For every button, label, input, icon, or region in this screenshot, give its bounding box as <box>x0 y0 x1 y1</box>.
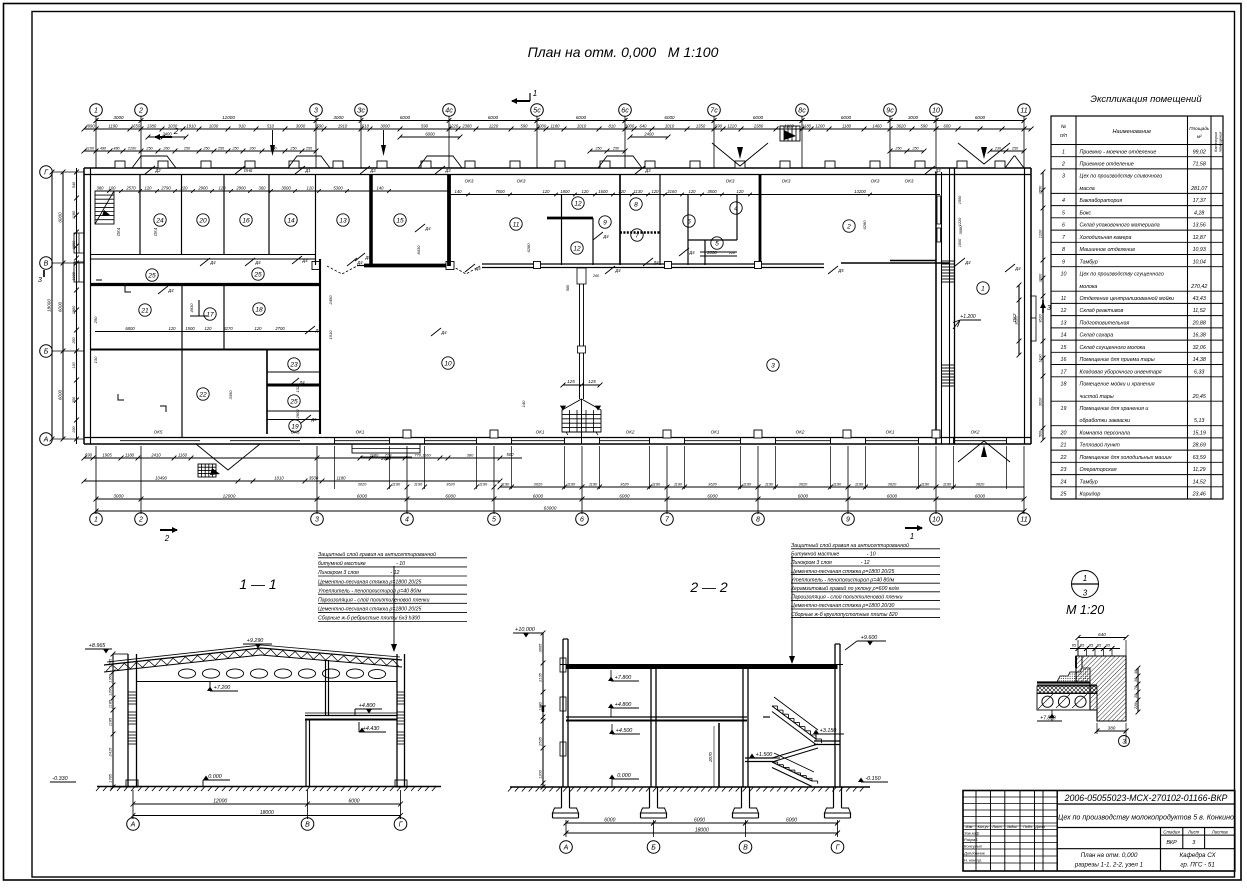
svg-text:2380: 2380 <box>753 123 764 128</box>
svg-text:3000: 3000 <box>537 123 547 128</box>
roof note leader 2-2 <box>791 556 793 663</box>
partition x=593 <box>592 218 594 265</box>
svg-text:+4.800: +4.800 <box>359 703 376 709</box>
svg-text:4: 4 <box>405 517 409 524</box>
svg-text:3000: 3000 <box>625 123 635 128</box>
svg-text:260: 260 <box>162 146 170 150</box>
svg-text:6000: 6000 <box>533 493 544 498</box>
svg-text:2: 2 <box>138 517 143 524</box>
svg-text:Д3: Д3 <box>369 168 376 173</box>
svg-text:3000: 3000 <box>296 123 306 128</box>
svg-text:1380: 1380 <box>147 123 157 128</box>
svg-text:590: 590 <box>715 123 723 128</box>
svg-text:10,93: 10,93 <box>1193 247 1206 253</box>
svg-text:А: А <box>130 822 136 829</box>
room 23 label <box>288 358 300 370</box>
right wall window <box>1031 296 1036 341</box>
svg-text:1190: 1190 <box>479 481 488 486</box>
svg-text:Помещение мойки и хранения: Помещение мойки и хранения <box>1080 381 1155 388</box>
svg-text:6000: 6000 <box>975 115 986 120</box>
svg-text:№: № <box>1061 124 1067 130</box>
interior dim row mid <box>449 194 940 196</box>
svg-text:1190: 1190 <box>921 481 930 486</box>
room2 wall right segment <box>890 260 936 262</box>
roof note leader 1-1 <box>393 566 395 651</box>
svg-text:12000: 12000 <box>213 798 227 804</box>
detail insulation band <box>1037 686 1097 693</box>
svg-text:17,37: 17,37 <box>1193 198 1207 204</box>
titleblock name row <box>1057 827 1235 829</box>
svg-text:1200: 1200 <box>815 123 825 128</box>
svg-text:Д1: Д1 <box>304 168 310 173</box>
svg-text:Цементно-песчаная стяжка ρ=180: Цементно-песчаная стяжка ρ=1800 20/30 <box>791 603 894 609</box>
section2 axis circle Г <box>831 841 844 854</box>
svg-text:281,07: 281,07 <box>1190 186 1208 192</box>
svg-text:1: 1 <box>910 532 914 541</box>
svg-text:Д5: Д5 <box>474 266 481 271</box>
svg-text:2135: 2135 <box>537 672 542 682</box>
svg-text:250: 250 <box>72 336 76 344</box>
svg-text:270,42: 270,42 <box>1190 284 1207 290</box>
dimension mid pair b <box>890 150 924 152</box>
conveyor structure hall <box>562 399 601 432</box>
section1 roof truss <box>104 648 402 665</box>
room 7 label <box>631 229 643 241</box>
axis circle 7 bottom <box>661 513 674 526</box>
svg-text:В: В <box>44 261 49 268</box>
svg-text:Н. контр.: Н. контр. <box>964 857 982 862</box>
svg-text:14,38: 14,38 <box>1193 357 1206 363</box>
pilasters on top wall <box>115 161 125 168</box>
section mark 2 bottom <box>160 529 177 531</box>
svg-text:1180: 1180 <box>370 452 379 457</box>
svg-text:+9.600: +9.600 <box>861 635 878 641</box>
room 15 label <box>394 214 406 226</box>
svg-text:3000: 3000 <box>113 115 124 120</box>
section1 mezzanine wall <box>305 720 307 787</box>
svg-text:3500: 3500 <box>309 475 319 480</box>
axis circle 6с top <box>619 104 632 117</box>
svg-text:2160: 2160 <box>127 146 137 150</box>
svg-text:Кладовая уборочного инвентаря: Кладовая уборочного инвентаря <box>1080 369 1162 375</box>
svg-text:2535: 2535 <box>537 736 542 746</box>
svg-text:+1.200: +1.200 <box>960 314 976 320</box>
svg-text:2570: 2570 <box>125 185 136 190</box>
section1 witness lines <box>132 790 134 819</box>
svg-text:В: В <box>305 822 310 829</box>
detail parapet line <box>1075 656 1077 668</box>
svg-text:А: А <box>43 437 49 444</box>
section2 axis circle А <box>560 841 573 854</box>
svg-text:м²: м² <box>1197 134 1202 139</box>
svg-text:Тамбур: Тамбур <box>1080 479 1098 485</box>
svg-text:Стадия: Стадия <box>1163 829 1180 834</box>
wall x=320 full <box>319 259 321 434</box>
svg-text:63,59: 63,59 <box>1193 455 1206 461</box>
svg-text:1350: 1350 <box>696 123 706 128</box>
svg-text:9: 9 <box>603 219 607 226</box>
room 13 label <box>337 214 349 226</box>
svg-text:13,56: 13,56 <box>1193 223 1206 229</box>
svg-text:6000: 6000 <box>57 212 62 223</box>
svg-text:250: 250 <box>93 316 98 324</box>
svg-text:250: 250 <box>305 146 313 150</box>
svg-text:250: 250 <box>145 146 153 150</box>
axis tick В left <box>53 262 85 264</box>
svg-text:1180: 1180 <box>842 123 852 128</box>
section1 dim row2 <box>133 815 401 817</box>
svg-text:5300: 5300 <box>333 185 343 190</box>
svg-text:8: 8 <box>1062 247 1065 253</box>
svg-text:Д4: Д4 <box>298 380 305 385</box>
svg-text:510: 510 <box>362 123 370 128</box>
detail floor top line <box>1037 681 1090 683</box>
door marks <box>200 258 210 266</box>
svg-text:6000: 6000 <box>445 493 456 498</box>
svg-text:1000: 1000 <box>958 238 962 247</box>
svg-text:№док: №док <box>1007 825 1017 829</box>
svg-text:1: 1 <box>94 108 98 115</box>
axis line 3 top <box>315 117 317 169</box>
svg-text:3620: 3620 <box>896 123 906 128</box>
dimension line top row3 segment b <box>400 136 460 138</box>
svg-text:25: 25 <box>147 272 156 279</box>
svg-text:2400: 2400 <box>643 131 654 136</box>
svg-text:Комната персонала: Комната персонала <box>1080 431 1131 437</box>
svg-text:Д4: Д4 <box>209 260 216 265</box>
svg-text:+9.290: +9.290 <box>247 638 264 644</box>
svg-text:3620: 3620 <box>358 481 367 486</box>
svg-text:4: 4 <box>1062 198 1065 204</box>
svg-text:230: 230 <box>72 425 76 433</box>
axis circle В left <box>40 257 53 270</box>
svg-text:4с: 4с <box>445 108 453 115</box>
dimension line top row4 <box>84 150 316 152</box>
svg-text:7500: 7500 <box>495 189 505 194</box>
explication table grid <box>1051 116 1223 499</box>
dim 2000 room4 <box>700 255 737 257</box>
corner marks room22b <box>96 280 131 292</box>
section2 dim row1 <box>566 822 838 824</box>
svg-text:770,1160: 770,1160 <box>414 452 431 457</box>
svg-text:1: 1 <box>981 285 985 292</box>
svg-text:23: 23 <box>1060 467 1067 473</box>
svg-text:обработки закваски: обработки закваски <box>1080 418 1131 424</box>
svg-text:28,69: 28,69 <box>1192 443 1206 449</box>
svg-text:17: 17 <box>1061 369 1068 375</box>
section1 axis circle Г <box>394 818 407 831</box>
staircase top left <box>95 191 114 224</box>
section2 axis circle В <box>739 841 752 854</box>
axis circle 11 top <box>1018 104 1031 117</box>
svg-text:2070: 2070 <box>708 752 713 763</box>
axis circle 3 bottom <box>311 513 324 526</box>
svg-text:120: 120 <box>255 326 263 331</box>
svg-text:1220: 1220 <box>958 217 962 226</box>
svg-text:ОК3: ОК3 <box>905 179 914 184</box>
svg-text:6000: 6000 <box>664 115 675 120</box>
svg-text:5: 5 <box>715 240 719 247</box>
svg-text:12: 12 <box>573 245 581 252</box>
svg-text:25: 25 <box>1060 492 1067 498</box>
partition x=267 lower <box>266 350 268 435</box>
svg-text:6с: 6с <box>621 108 629 115</box>
svg-text:1190: 1190 <box>652 481 661 486</box>
section2 ground line <box>510 786 870 788</box>
svg-text:770: 770 <box>385 452 392 457</box>
svg-text:21: 21 <box>1060 443 1067 449</box>
svg-text:Консульт: Консульт <box>964 843 983 848</box>
svg-text:10: 10 <box>932 517 940 524</box>
svg-text:6000: 6000 <box>975 493 986 498</box>
svg-text:380: 380 <box>97 185 105 190</box>
svg-text:Д3: Д3 <box>444 168 451 173</box>
svg-text:2: 2 <box>846 223 851 230</box>
wall under room21 row <box>90 349 320 351</box>
svg-text:Тепловой пункт: Тепловой пункт <box>1080 442 1121 449</box>
room 11 label <box>510 218 522 230</box>
section2 column 2 <box>650 668 652 788</box>
svg-text:Д4: Д4 <box>356 260 363 265</box>
axis line 2 top <box>140 117 142 169</box>
section1 axis circle В <box>301 818 314 831</box>
svg-text:Приемное отделение: Приемное отделение <box>1080 162 1134 168</box>
wall y=240 small rooms <box>688 239 737 241</box>
svg-text:+10.000: +10.000 <box>515 627 535 633</box>
svg-text:Дипломник: Дипломник <box>963 850 986 855</box>
axis line 5с top <box>536 117 538 169</box>
axis circle 2 bottom <box>135 513 148 526</box>
svg-text:Операторская: Операторская <box>1080 467 1117 473</box>
svg-text:23: 23 <box>289 361 298 368</box>
svg-text:3620: 3620 <box>708 481 717 486</box>
svg-text:Кол.уч: Кол.уч <box>978 825 989 829</box>
svg-text:Цех по производству молокопрод: Цех по производству молокопродуктов 5 в.… <box>1058 814 1234 822</box>
svg-text:12: 12 <box>574 200 582 207</box>
svg-text:Приемно - моечное отделение: Приемно - моечное отделение <box>1080 149 1157 155</box>
svg-text:120: 120 <box>169 326 177 331</box>
svg-text:План на отм. 0,000: План на отм. 0,000 <box>1081 852 1138 859</box>
svg-text:3620: 3620 <box>534 481 543 486</box>
section1 column A <box>127 654 129 787</box>
axis circle Г left <box>40 166 53 179</box>
svg-text:Д4: Д4 <box>964 260 971 265</box>
svg-text:10: 10 <box>932 108 940 115</box>
svg-text:18000: 18000 <box>695 827 709 833</box>
svg-text:590: 590 <box>85 452 93 457</box>
dim row 63000 <box>96 510 1024 512</box>
section1 inner column <box>325 660 327 716</box>
axis circle 9с top <box>884 104 897 117</box>
svg-text:120: 120 <box>689 189 697 194</box>
room 25 label <box>288 395 300 407</box>
window left bottom wall <box>120 440 200 442</box>
svg-text:3620: 3620 <box>620 481 629 486</box>
left dim vertical c <box>76 168 78 444</box>
svg-text:Цех по производству сгущенного: Цех по производству сгущенного <box>1080 272 1164 278</box>
detail node circle <box>1072 571 1099 598</box>
svg-text:ОК2: ОК2 <box>971 430 980 435</box>
svg-text:490: 490 <box>100 146 107 150</box>
svg-text:1: 1 <box>94 517 98 524</box>
svg-text:250: 250 <box>183 146 191 150</box>
svg-text:1160: 1160 <box>178 452 188 457</box>
section2 roof slab <box>566 665 838 670</box>
svg-text:2000: 2000 <box>706 250 717 255</box>
arrow marker b <box>381 145 386 156</box>
svg-text:1220: 1220 <box>1038 229 1042 238</box>
titleblock left verticals <box>975 791 977 872</box>
svg-text:3620: 3620 <box>799 481 808 486</box>
detail dim 640 <box>1078 637 1126 639</box>
svg-text:1160: 1160 <box>86 146 95 150</box>
svg-text:18000: 18000 <box>260 810 274 816</box>
svg-text:22: 22 <box>198 391 207 398</box>
svg-text:10: 10 <box>444 360 452 367</box>
svg-text:ОК4: ОК4 <box>153 227 158 236</box>
section mark 1 bottom <box>905 527 922 529</box>
svg-text:ОК1: ОК1 <box>711 430 720 435</box>
svg-text:Сборные ж-б круглопустотные п: Сборные ж-б круглопустотные плиты δ20 <box>791 612 898 618</box>
svg-text:ОК1: ОК1 <box>536 430 545 435</box>
svg-text:6,33: 6,33 <box>1194 369 1204 375</box>
titleblock outer <box>963 791 1235 872</box>
section1 fascia ovals <box>178 669 195 678</box>
svg-text:6280: 6280 <box>526 243 531 253</box>
svg-text:Д4: Д4 <box>301 258 308 263</box>
svg-text:Д6: Д6 <box>310 417 317 422</box>
dim row bottom left a <box>84 457 317 459</box>
svg-text:1350: 1350 <box>107 673 112 682</box>
svg-text:13200: 13200 <box>854 189 866 194</box>
axis line Зс top <box>360 117 362 169</box>
svg-text:2380: 2380 <box>461 123 472 128</box>
section2 partition door <box>718 723 720 787</box>
svg-text:Отделение централизованной мой: Отделение централизованной мойки <box>1080 295 1175 302</box>
pilasters mid wall <box>534 262 541 269</box>
svg-text:65: 65 <box>1072 643 1077 648</box>
svg-text:6000: 6000 <box>619 493 630 498</box>
svg-text:Машинное отделение: Машинное отделение <box>1080 247 1136 253</box>
svg-text:12: 12 <box>1061 308 1067 314</box>
axis circle 8 bottom <box>752 513 765 526</box>
svg-text:7с: 7с <box>710 108 718 115</box>
axis circle 10 bottom <box>930 513 943 526</box>
section1 mezzanine slab <box>305 715 397 717</box>
svg-text:Линокром 3 слоя: Линокром 3 слоя - 12 <box>790 560 870 566</box>
svg-text:Зс: Зс <box>357 108 365 115</box>
svg-text:1190: 1190 <box>108 123 118 128</box>
svg-text:Склад реактивов: Склад реактивов <box>1080 308 1124 314</box>
svg-text:1190: 1190 <box>743 481 752 486</box>
svg-text:Экспликация помещений: Экспликация помещений <box>1090 94 1202 105</box>
svg-text:1190: 1190 <box>414 481 423 486</box>
svg-text:1800: 1800 <box>560 189 570 194</box>
section2 parapet right <box>835 643 840 645</box>
svg-text:1220: 1220 <box>449 123 459 128</box>
svg-text:1550: 1550 <box>1038 185 1042 194</box>
section2 small mark <box>540 705 546 707</box>
svg-text:11: 11 <box>1061 296 1067 302</box>
svg-text:63000: 63000 <box>544 505 557 510</box>
svg-text:6000: 6000 <box>753 115 764 120</box>
svg-text:2790: 2790 <box>160 185 171 190</box>
svg-text:Лист: Лист <box>991 825 1001 829</box>
section1 axis circle А <box>127 818 140 831</box>
svg-text:Баклаборатория: Баклаборатория <box>1080 198 1123 204</box>
svg-text:540: 540 <box>72 181 76 188</box>
svg-text:3620: 3620 <box>1014 315 1018 324</box>
svg-text:Защитный слой гравия на антисе: Защитный слой гравия на антисептированно… <box>318 551 436 558</box>
axis circle Зс top <box>355 104 368 117</box>
svg-text:24: 24 <box>155 217 164 224</box>
svg-text:Б: Б <box>651 845 656 852</box>
svg-text:1190: 1190 <box>833 481 842 486</box>
svg-text:20,45: 20,45 <box>1192 394 1206 400</box>
svg-text:2: 2 <box>173 127 179 136</box>
svg-text:5: 5 <box>1062 210 1065 216</box>
svg-text:12000: 12000 <box>222 115 235 120</box>
svg-text:Склад сахара: Склад сахара <box>1080 333 1114 339</box>
svg-text:ОК3: ОК3 <box>517 179 526 184</box>
partition x=182 midband <box>181 286 183 349</box>
svg-text:1500: 1500 <box>185 326 195 331</box>
svg-text:А: А <box>563 845 569 852</box>
svg-text:1010: 1010 <box>665 123 675 128</box>
room 3 label <box>767 359 779 371</box>
svg-text:220: 220 <box>180 185 189 190</box>
svg-text:7: 7 <box>635 232 639 239</box>
svg-text:15,19: 15,19 <box>1193 431 1206 437</box>
witness lines bottom windows <box>334 446 336 489</box>
axis circle 1 bottom <box>90 513 103 526</box>
svg-text:1190: 1190 <box>567 481 576 486</box>
svg-text:70: 70 <box>1134 686 1138 690</box>
svg-text:1650: 1650 <box>131 123 141 128</box>
svg-text:250: 250 <box>217 146 225 150</box>
entrance chevron right top <box>958 143 1010 164</box>
axis circle 10 top <box>930 104 943 117</box>
svg-text:Тамбур: Тамбур <box>1080 259 1098 265</box>
svg-text:Наименование: Наименование <box>1112 129 1151 135</box>
svg-text:14,52: 14,52 <box>1193 479 1206 485</box>
svg-text:25: 25 <box>289 398 298 405</box>
room 24 label <box>154 214 166 226</box>
svg-text:3080: 3080 <box>958 225 963 235</box>
svg-text:16,38: 16,38 <box>1193 333 1206 339</box>
svg-text:молока: молока <box>1080 284 1098 290</box>
room 4 label <box>730 202 742 214</box>
svg-text:250: 250 <box>202 146 210 150</box>
svg-text:Склад сгущенного молока: Склад сгущенного молока <box>1080 345 1146 351</box>
svg-text:6: 6 <box>687 218 691 225</box>
section2 parapet left <box>563 638 568 640</box>
svg-text:2 — 2: 2 — 2 <box>689 579 728 595</box>
svg-text:Помещение для приема тары: Помещение для приема тары <box>1080 357 1155 363</box>
svg-text:590: 590 <box>421 123 429 128</box>
svg-text:32,06: 32,06 <box>1193 345 1206 351</box>
svg-text:Д4: Д4 <box>314 328 321 333</box>
interior dim row left <box>95 190 449 192</box>
axis circle 7с top <box>708 104 721 117</box>
svg-text:1600: 1600 <box>598 189 608 194</box>
partition x=737 <box>736 194 738 240</box>
svg-text:250: 250 <box>289 146 297 150</box>
svg-text:100: 100 <box>109 185 117 190</box>
left dim vertical a <box>62 172 64 439</box>
outer wall left <box>83 168 85 444</box>
svg-text:250: 250 <box>1011 146 1019 150</box>
